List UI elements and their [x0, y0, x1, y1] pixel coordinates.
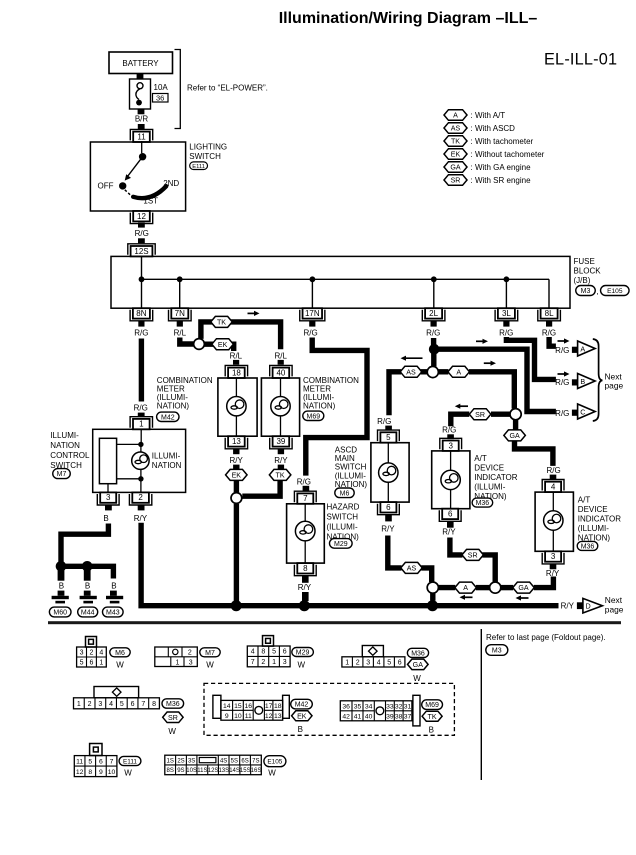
wire [278, 465, 284, 470]
svg-text:16: 16 [244, 703, 252, 710]
wire [58, 591, 65, 596]
svg-text:39: 39 [386, 713, 394, 720]
wire to ground bus [234, 504, 239, 603]
wire [309, 321, 315, 327]
wire [431, 354, 436, 367]
svg-text:DEVICE: DEVICE [578, 505, 608, 514]
svg-text:5: 5 [386, 433, 391, 442]
combination meter M42 box [218, 378, 257, 436]
svg-text:E111: E111 [123, 758, 137, 765]
svg-text:3S: 3S [188, 758, 195, 764]
splice junction [427, 366, 438, 377]
bulb [379, 463, 398, 482]
brace next page [593, 339, 603, 421]
svg-text:5: 5 [88, 758, 92, 765]
svg-text:18: 18 [274, 703, 282, 710]
A/T device indicator M36 box [432, 451, 470, 509]
svg-text:page: page [605, 380, 624, 390]
svg-text:R/G: R/G [134, 328, 148, 337]
svg-text:W: W [116, 661, 124, 670]
connector 8L [541, 308, 558, 318]
svg-text:7N: 7N [175, 309, 185, 318]
wire [438, 369, 448, 374]
svg-text:D: D [585, 602, 590, 611]
ground ref M43 [103, 607, 124, 617]
svg-text:BLOCK: BLOCK [574, 267, 602, 276]
connector 8N [133, 308, 150, 318]
svg-text:R/L: R/L [230, 351, 243, 360]
svg-text:M36: M36 [581, 543, 595, 550]
svg-text:R/G: R/G [442, 426, 456, 435]
wire [61, 566, 113, 578]
svg-text:NATION): NATION) [157, 401, 190, 410]
svg-text:3: 3 [189, 660, 193, 667]
svg-text:3: 3 [448, 441, 453, 450]
svg-text:R/Y: R/Y [274, 456, 288, 465]
svg-text:3L: 3L [502, 309, 511, 318]
svg-text:39: 39 [276, 437, 285, 446]
svg-text:NATION: NATION [152, 461, 182, 470]
svg-text:16S: 16S [251, 768, 262, 774]
svg-text:M42: M42 [295, 702, 309, 709]
svg-text:36: 36 [342, 703, 350, 710]
svg-text:TK: TK [217, 318, 226, 326]
wire [572, 347, 578, 353]
connector ref M36 [472, 498, 493, 507]
svg-text:: With SR engine: : With SR engine [471, 176, 532, 185]
connector pinout M69 [340, 701, 412, 721]
svg-text:14S: 14S [229, 768, 240, 774]
bulb ILLUMINATION [132, 452, 149, 469]
svg-text:R/L: R/L [274, 351, 287, 360]
svg-text:1: 1 [345, 659, 349, 666]
wire [137, 74, 144, 80]
connector ref E111 [190, 162, 208, 170]
svg-text:15S: 15S [240, 768, 251, 774]
arrow [476, 340, 485, 342]
svg-text:AS: AS [406, 368, 416, 376]
svg-text:17N: 17N [305, 309, 320, 318]
wire to EK [204, 344, 233, 351]
svg-text:1S: 1S [167, 758, 174, 764]
svg-text:A/T: A/T [578, 495, 591, 504]
wire [430, 593, 435, 601]
arrow [484, 362, 493, 364]
ground [106, 596, 123, 599]
arrow [519, 597, 529, 599]
svg-text:4: 4 [109, 701, 113, 708]
connector ref M69 [303, 411, 324, 420]
svg-text:6: 6 [283, 649, 287, 656]
svg-text:OFF: OFF [98, 182, 114, 191]
svg-text:R/G: R/G [426, 329, 440, 338]
junction [177, 276, 183, 282]
svg-text:R/Y: R/Y [134, 514, 148, 523]
wire [546, 321, 552, 327]
svg-text:8N: 8N [136, 309, 146, 318]
svg-text:41: 41 [354, 713, 362, 720]
connector 7 [297, 493, 313, 503]
svg-text:R/G: R/G [546, 466, 560, 475]
svg-text:9S: 9S [177, 768, 184, 774]
option A [455, 582, 477, 593]
svg-text:M42: M42 [161, 414, 175, 421]
connector 39 [273, 436, 290, 446]
svg-text:8: 8 [88, 769, 92, 776]
svg-text:2: 2 [356, 659, 360, 666]
wire [476, 585, 490, 590]
connector 6 [442, 509, 458, 519]
svg-text:E105: E105 [267, 759, 282, 766]
svg-text:A: A [456, 368, 461, 376]
connector 3 [443, 441, 459, 451]
svg-text:R/Y: R/Y [298, 583, 312, 592]
option GA [504, 430, 525, 441]
svg-text:M29: M29 [334, 541, 348, 548]
svg-text:3: 3 [283, 659, 287, 666]
connector ref M3 [576, 286, 596, 296]
svg-text:2: 2 [261, 659, 265, 666]
svg-text:EL-ILL-01: EL-ILL-01 [544, 51, 617, 69]
arrow [558, 373, 567, 375]
wire SR to splice [450, 538, 463, 555]
junction [139, 276, 145, 282]
ground ref M44 [78, 607, 98, 617]
svg-text:11: 11 [137, 132, 146, 141]
wire [233, 465, 239, 470]
svg-text:page: page [605, 604, 624, 614]
svg-text:12: 12 [76, 769, 84, 776]
svg-text:ILLUMI-: ILLUMI- [152, 451, 181, 460]
svg-text:6: 6 [398, 659, 402, 666]
ground [52, 596, 69, 599]
svg-text:M7: M7 [205, 650, 215, 657]
wire [513, 420, 518, 430]
wire [138, 124, 145, 129]
svg-text:INDICATOR: INDICATOR [578, 514, 621, 523]
wire [421, 369, 428, 374]
svg-text:EK: EK [232, 471, 242, 479]
svg-text:5: 5 [120, 701, 124, 708]
svg-text:W: W [124, 769, 132, 778]
svg-text:1: 1 [99, 660, 103, 667]
connector ref E105 [601, 286, 630, 296]
refer bracket [175, 50, 181, 129]
svg-text:8: 8 [303, 564, 308, 573]
wire [438, 585, 455, 590]
svg-text:R/L: R/L [174, 328, 187, 337]
junction [310, 276, 316, 282]
wire [84, 570, 91, 581]
svg-text:3: 3 [80, 650, 84, 657]
svg-text:GA: GA [413, 661, 424, 669]
svg-text:10S: 10S [186, 768, 197, 774]
wire [105, 505, 112, 511]
svg-text:3: 3 [98, 701, 102, 708]
connector 2 [132, 492, 149, 502]
svg-text:2: 2 [188, 650, 192, 657]
svg-text:HAZARD: HAZARD [327, 502, 360, 511]
svg-text:M6: M6 [115, 650, 125, 657]
svg-text:GA: GA [518, 584, 529, 592]
connector ref M6 [335, 488, 354, 498]
wire [421, 568, 432, 582]
connector 7N [171, 308, 188, 318]
option TK [269, 469, 291, 480]
svg-text:37: 37 [404, 713, 412, 720]
page connector D [583, 598, 603, 613]
svg-text:SR: SR [168, 714, 178, 722]
svg-text:TK: TK [428, 713, 437, 721]
svg-text:12: 12 [265, 713, 273, 720]
bulb [544, 511, 563, 530]
wire [140, 429, 142, 445]
svg-text:M43: M43 [106, 610, 120, 617]
connector 8 [297, 563, 313, 573]
wire [110, 591, 117, 596]
wire R/G from 17N [306, 338, 367, 476]
svg-text:36: 36 [156, 93, 164, 102]
svg-text:18: 18 [232, 368, 241, 377]
svg-text:NATION: NATION [50, 441, 80, 450]
svg-text:R/G: R/G [135, 229, 149, 238]
svg-text:W: W [413, 674, 421, 683]
junction [138, 476, 143, 481]
svg-text:11: 11 [76, 758, 83, 765]
splice junction [427, 582, 438, 593]
svg-text:(J/B): (J/B) [574, 276, 591, 285]
connector 3 [100, 492, 116, 502]
lighting switch E111 [90, 142, 185, 211]
svg-text:(ILLUMI-: (ILLUMI- [474, 483, 505, 492]
svg-text:12S: 12S [208, 768, 219, 774]
connector ref M42 [157, 412, 179, 421]
svg-text:8: 8 [152, 701, 156, 708]
arrow [463, 596, 473, 598]
svg-text:35: 35 [354, 703, 362, 710]
wire [447, 434, 454, 439]
svg-text:ILLUMI-: ILLUMI- [50, 431, 79, 440]
svg-text:E111: E111 [192, 164, 205, 170]
svg-text:A: A [463, 584, 468, 592]
wire [138, 321, 144, 327]
svg-text:15: 15 [234, 703, 242, 710]
svg-text:W: W [298, 661, 306, 670]
wire [138, 109, 145, 114]
bulb [295, 521, 315, 541]
svg-text:B: B [103, 514, 108, 523]
svg-text:40: 40 [276, 368, 285, 377]
connector ref M7 [53, 469, 71, 479]
svg-text:38: 38 [395, 713, 403, 720]
junction [431, 276, 437, 282]
legend symbol SR [444, 175, 467, 186]
svg-text:M36: M36 [411, 650, 425, 657]
page connector C [578, 404, 596, 419]
svg-text:R/Y: R/Y [230, 456, 244, 465]
svg-text:Illumination/Wiring Diagram –I: Illumination/Wiring Diagram –ILL– [279, 10, 538, 27]
svg-text:14: 14 [223, 703, 231, 710]
splice junction [510, 409, 521, 420]
svg-text:AS: AS [451, 125, 461, 133]
wire [278, 449, 284, 454]
svg-text:W: W [168, 727, 176, 736]
svg-text:R/Y: R/Y [442, 527, 456, 536]
wire [138, 223, 145, 228]
svg-text:A: A [580, 344, 585, 353]
legend symbol GA [444, 162, 467, 173]
A/T device indicator M36 box [535, 492, 573, 551]
svg-text:R/G: R/G [555, 378, 569, 387]
svg-text:B: B [111, 582, 116, 591]
splice junction [231, 493, 242, 504]
svg-text:M3: M3 [492, 648, 502, 655]
svg-text:SR: SR [475, 411, 485, 419]
svg-text:GA: GA [450, 164, 461, 172]
option A [448, 366, 470, 377]
svg-text:R/G: R/G [555, 409, 569, 418]
svg-text:3: 3 [106, 493, 111, 502]
page connector A [578, 341, 596, 356]
svg-text:(ILLUMI-: (ILLUMI- [327, 522, 358, 531]
svg-text:SR: SR [451, 177, 461, 185]
svg-text:E105: E105 [607, 288, 623, 295]
svg-text:SWITCH: SWITCH [189, 152, 221, 161]
wire [447, 521, 454, 527]
svg-text:7: 7 [303, 494, 308, 503]
svg-text:M36: M36 [476, 500, 490, 507]
svg-text:TK: TK [276, 471, 285, 479]
switch arc [133, 186, 166, 198]
svg-text:1: 1 [175, 660, 179, 667]
junction [82, 561, 93, 572]
harness connectors box [204, 683, 454, 735]
connector pinout M7 [155, 647, 198, 667]
svg-text:SWITCH: SWITCH [327, 512, 359, 521]
svg-text:B: B [580, 377, 585, 386]
bulb [441, 470, 460, 489]
svg-text:5: 5 [272, 649, 276, 656]
wire [84, 591, 91, 596]
wire [234, 480, 239, 492]
svg-text:13S: 13S [218, 768, 229, 774]
svg-text:7: 7 [251, 659, 255, 666]
svg-text:CONTROL: CONTROL [50, 451, 90, 460]
wire [302, 592, 309, 601]
svg-text:40: 40 [365, 713, 373, 720]
svg-text:M29: M29 [296, 650, 310, 657]
svg-text:3: 3 [551, 552, 556, 561]
connector 2L [425, 308, 442, 318]
legend symbol TK [444, 136, 467, 147]
svg-text:6: 6 [448, 510, 453, 519]
svg-text:6: 6 [386, 503, 391, 512]
svg-text:,: , [596, 287, 598, 296]
connector 18 [228, 368, 245, 378]
connector 3L [498, 308, 515, 318]
wire R/G from 2L [431, 338, 436, 345]
svg-text:W: W [268, 769, 276, 778]
svg-text:6: 6 [99, 758, 103, 765]
svg-text:DEVICE: DEVICE [474, 464, 504, 473]
wire [233, 360, 239, 365]
legend symbol A [444, 110, 467, 121]
wire [385, 426, 392, 431]
svg-text:5: 5 [387, 659, 391, 666]
svg-text:INDICATOR: INDICATOR [474, 473, 517, 482]
wire [58, 570, 65, 581]
option GA [513, 582, 535, 593]
option SR [469, 409, 491, 420]
connector 13 [228, 436, 245, 446]
junction [138, 442, 143, 447]
svg-text:(ILLUMI-: (ILLUMI- [578, 524, 609, 533]
connector pinout E105 [165, 755, 261, 775]
wire to TK [201, 322, 281, 349]
svg-text:2: 2 [138, 493, 143, 502]
svg-text:1: 1 [272, 659, 276, 666]
arrow [248, 312, 257, 314]
wire [469, 372, 514, 409]
svg-text:R/G: R/G [377, 417, 391, 426]
junction [231, 600, 242, 611]
option AS [400, 366, 422, 377]
svg-text:9: 9 [225, 713, 229, 720]
wire [482, 555, 495, 582]
option EK [226, 469, 248, 480]
wire [503, 321, 509, 327]
switch position OFF [119, 182, 126, 189]
svg-text:42: 42 [342, 713, 350, 720]
svg-text:31: 31 [404, 703, 412, 710]
combination meter M69 box [261, 378, 299, 436]
svg-text:R/G: R/G [134, 403, 148, 412]
svg-text:M6: M6 [340, 490, 350, 497]
wire [278, 360, 284, 365]
svg-text:TK: TK [451, 138, 460, 146]
svg-text:11: 11 [245, 713, 252, 720]
svg-text:LIGHTING: LIGHTING [189, 143, 227, 152]
wire [550, 475, 557, 480]
svg-text:C: C [580, 407, 585, 416]
svg-text:33: 33 [386, 703, 394, 710]
svg-text:: With ASCD: : With ASCD [471, 124, 516, 133]
svg-text:4: 4 [377, 659, 381, 666]
legend symbol AS [444, 123, 467, 134]
svg-text:M60: M60 [53, 610, 67, 617]
svg-text:13: 13 [274, 713, 282, 720]
wire to next page C [434, 349, 556, 411]
svg-text:10: 10 [108, 769, 116, 776]
ASCD main switch M6 box [371, 443, 409, 502]
svg-text:GA: GA [509, 432, 520, 440]
wire [138, 413, 145, 417]
legend symbol EK [444, 149, 467, 160]
switch contact [139, 153, 146, 160]
option EK [212, 339, 234, 350]
svg-text:M44: M44 [81, 610, 95, 617]
svg-text:5S: 5S [231, 758, 238, 764]
connector ref M3 [486, 645, 508, 656]
battery [109, 52, 173, 74]
wire to A/T indicator 3 [451, 414, 470, 426]
connector 17N [303, 308, 323, 318]
connector 6 [380, 502, 396, 512]
svg-text:2L: 2L [429, 309, 438, 318]
wire AS to splice [388, 536, 402, 568]
wire R/Y to bus [141, 523, 558, 606]
option TK [211, 316, 233, 327]
